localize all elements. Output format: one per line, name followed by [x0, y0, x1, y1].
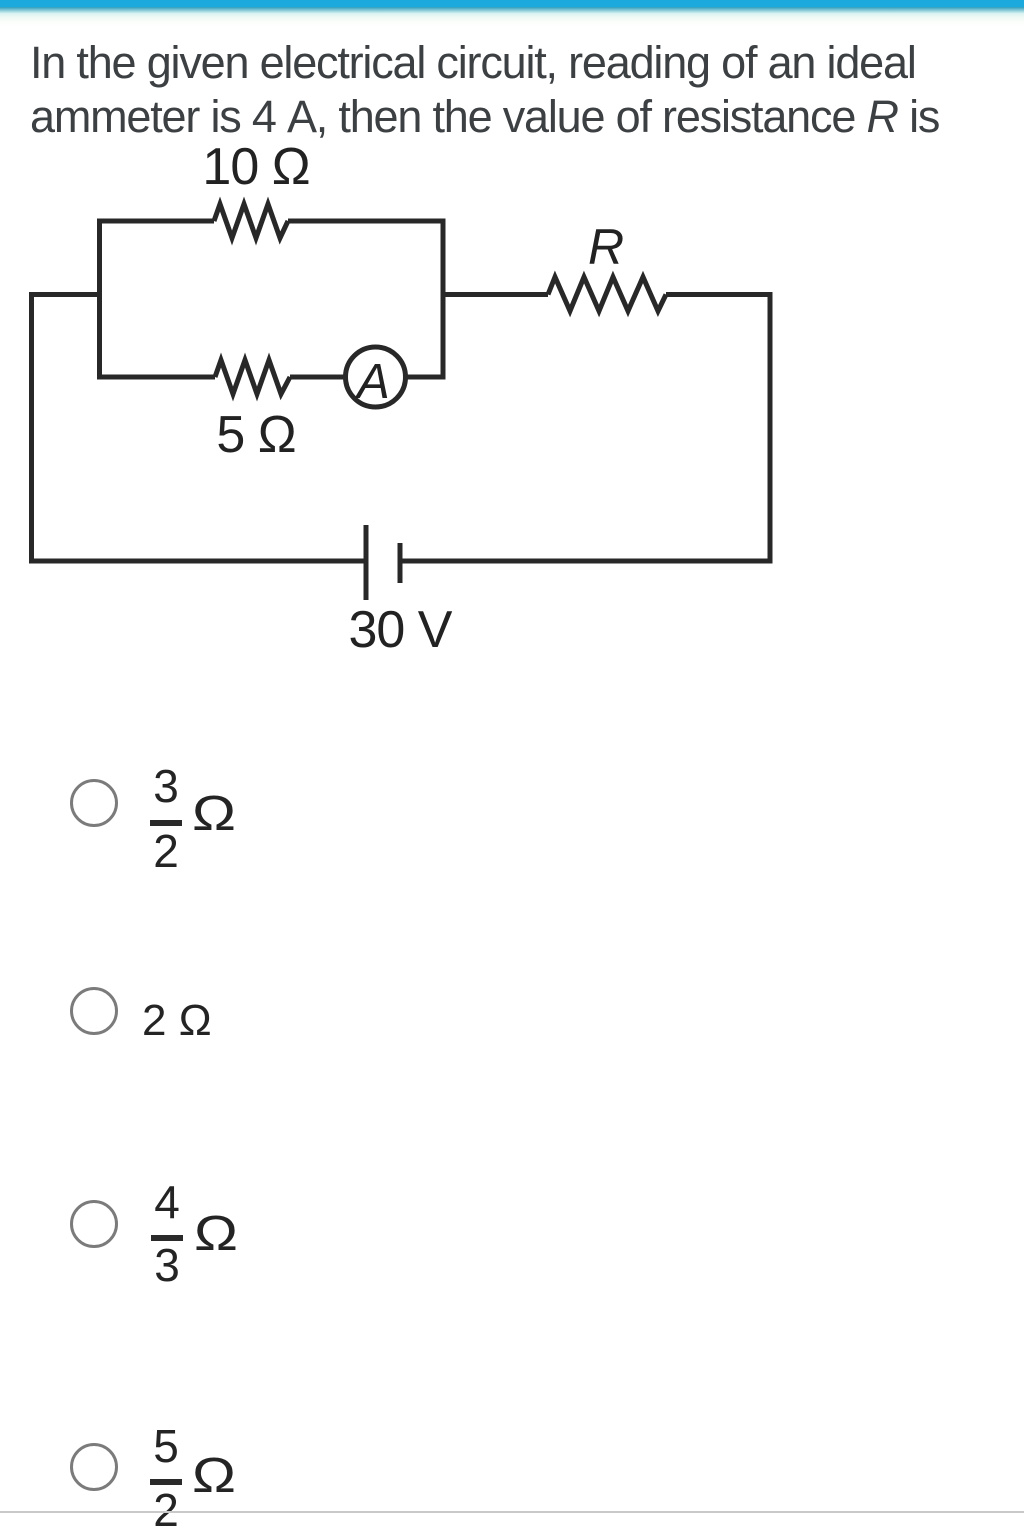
- resistor R zigzag: [548, 277, 666, 311]
- option 3 radio: [70, 1200, 118, 1248]
- svg-text:5 Ω: 5 Ω: [216, 406, 295, 464]
- option 1 fraction 3/2 numerator: [134, 763, 198, 809]
- svg-text:30 V: 30 V: [349, 601, 453, 659]
- option 3 fraction 4/3 numerator: [135, 1179, 199, 1225]
- wire: bottom right segment: [400, 559, 773, 564]
- battery short plate: [398, 543, 403, 583]
- bottom divider line: [0, 1511, 1024, 1513]
- wire: ammeter to box right: [405, 375, 443, 380]
- option 1 fraction denominator: [134, 828, 198, 874]
- wire: R to right vertical: [666, 292, 773, 297]
- svg-text:R: R: [588, 219, 624, 275]
- option 3 fraction bar: [151, 1235, 183, 1241]
- option 4 fraction 5/2 numerator: [134, 1423, 198, 1469]
- wire: 5ohm to ammeter: [290, 375, 346, 380]
- option 4 ohm: [192, 1452, 236, 1501]
- option 4 fraction bar: [150, 1479, 182, 1485]
- wire: box to R: [443, 292, 548, 297]
- option 1 radio: [70, 779, 118, 827]
- wire: box bottom left segment: [97, 375, 215, 380]
- ammeter A circle: [346, 347, 406, 407]
- option 2 radio: [70, 987, 118, 1035]
- question text: [30, 36, 1020, 144]
- option 1 fraction bar: [150, 820, 182, 826]
- circuit schematic: [0, 130, 820, 670]
- wire: box top right segment: [288, 219, 443, 224]
- option 4 radio: [70, 1443, 118, 1491]
- wire: left outer vertical: [29, 292, 34, 564]
- wire: box right vertical: [441, 219, 446, 380]
- wire: right outer vertical: [768, 295, 773, 564]
- option 4 fraction denominator: [134, 1487, 198, 1533]
- option 3 ohm: [194, 1210, 238, 1259]
- battery long plate: [364, 525, 369, 600]
- option 2 text 2 ohm: [142, 999, 212, 1043]
- resistor 5ohm zigzag: [215, 360, 290, 394]
- svg-text:10 Ω: 10 Ω: [202, 138, 309, 196]
- wire: left stub: [32, 292, 100, 297]
- resistor 10ohm zigzag: [214, 204, 288, 238]
- option 1 ohm: [192, 790, 236, 839]
- wire: bottom left segment: [29, 559, 366, 564]
- top blue bar: [0, 0, 1024, 7]
- wire: parallel box left vertical: [97, 221, 102, 377]
- svg-text:A: A: [354, 355, 390, 409]
- option 3 fraction denominator: [135, 1242, 199, 1288]
- wire: box top left segment: [97, 219, 214, 224]
